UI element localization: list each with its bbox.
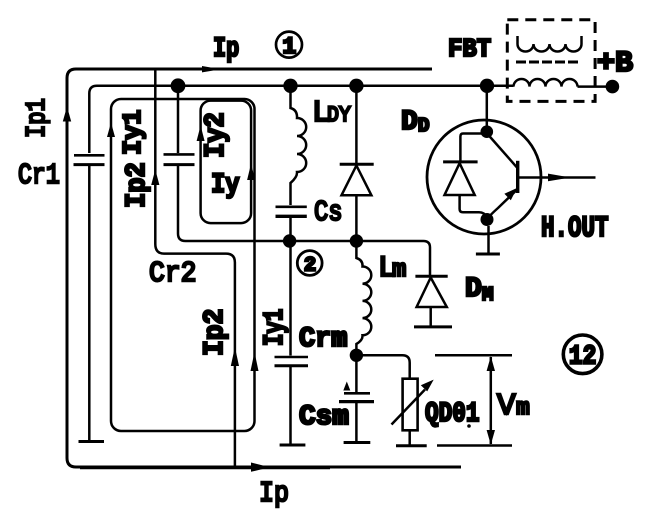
capacitor Cr2 with wire down to node 2 rail bbox=[164, 86, 289, 241]
node top junction inside DD bbox=[481, 125, 494, 138]
junction node at Lm branch bbox=[350, 234, 363, 247]
junction node on bus at LDY branch bbox=[283, 79, 297, 93]
svg-text:Iy1: Iy1 bbox=[259, 309, 291, 346]
svg-text:+B: +B bbox=[597, 47, 633, 81]
FBT core (dashed line) bbox=[516, 61, 578, 64]
arrow Ip1 on outer loop left edge bbox=[63, 107, 71, 122]
label Vm bbox=[497, 389, 530, 424]
svg-text:H.OUT: H.OUT bbox=[541, 211, 609, 245]
wire bus dot down into DD circle bbox=[486, 86, 489, 127]
arrow Ip on top wire bbox=[202, 66, 221, 72]
wire outer current loop Ip1 (top/left/bottom) bbox=[67, 69, 461, 467]
arrow Ip on bottom wire bbox=[251, 463, 270, 472]
svg-text:m: m bbox=[516, 395, 530, 421]
wire current loop Iy1 (rounded rectangle) bbox=[111, 99, 255, 431]
svg-text:Iy: Iy bbox=[211, 168, 240, 200]
svg-text:Cr1: Cr1 bbox=[18, 159, 60, 192]
capacitor Cr1 bbox=[74, 155, 105, 441]
wire bottom rail thickening bbox=[80, 467, 330, 469]
capacitor Csm (with polarity arrow) bbox=[339, 355, 374, 442]
svg-text:Ip2: Ip2 bbox=[199, 309, 231, 356]
junction node 2 at Crm branch bbox=[283, 234, 296, 247]
junction node at Lm bottom / Crm-QD01 rail bbox=[350, 349, 363, 362]
FBT secondary winding (bottom, in series with bus) bbox=[487, 79, 606, 87]
label DD bbox=[401, 107, 429, 138]
figure number 12 circled bbox=[563, 335, 602, 374]
speck (scan noise dot) bbox=[467, 424, 471, 428]
diode (damper, unlabeled) between bus and node 2 rail bbox=[340, 86, 374, 240]
svg-text:FBT: FBT bbox=[448, 34, 491, 64]
svg-text:Iy1: Iy1 bbox=[119, 110, 148, 155]
svg-text:2: 2 bbox=[304, 255, 316, 278]
arrow Iy1 on loop right edge bbox=[251, 352, 259, 371]
svg-text:Ip: Ip bbox=[213, 33, 239, 65]
svg-text:Ip1: Ip1 bbox=[22, 98, 53, 138]
ground terminal below DD bbox=[476, 226, 500, 254]
svg-text:QD01: QD01 bbox=[425, 398, 479, 430]
svg-text:Iy2: Iy2 bbox=[201, 112, 232, 158]
arrow Ip2 on lower segment bbox=[231, 347, 239, 366]
wire main bus (node 1 rail) with left bend into Cr1 bbox=[89, 86, 487, 153]
resistor QD01 (variable, with diagonal arrow) bbox=[356, 355, 433, 446]
svg-text:Cs: Cs bbox=[314, 196, 343, 229]
svg-text:12: 12 bbox=[569, 341, 597, 372]
FBT primary winding (top) bbox=[518, 36, 582, 52]
svg-text:Csm: Csm bbox=[299, 402, 349, 433]
arrow on base lead bbox=[548, 174, 571, 182]
diode inside DD bbox=[443, 134, 487, 218]
inductor LDY (deflection yoke) bbox=[291, 86, 307, 205]
svg-text:Cr2: Cr2 bbox=[149, 258, 197, 290]
capacitor Cs bbox=[276, 207, 307, 240]
arrow Iy2 on box left edge bbox=[197, 126, 205, 142]
svg-text:DY: DY bbox=[327, 104, 351, 128]
junction node on bus at damper diode branch bbox=[349, 79, 363, 93]
svg-text:V: V bbox=[497, 389, 516, 424]
node 1 circled marker bbox=[276, 32, 302, 60]
wire current path Ip2 (vertical, jog, vertical to bottom wire) bbox=[155, 69, 235, 467]
svg-text:Crm: Crm bbox=[299, 324, 347, 356]
arrow Ip2 on upper segment bbox=[151, 170, 159, 186]
wire transistor base lead out to H.OUT bbox=[518, 176, 596, 179]
terminal +B bbox=[606, 80, 620, 94]
label Lm bbox=[378, 252, 406, 286]
junction node on bus at DD / FBT bbox=[480, 79, 494, 93]
wire current loop Iy2 (rounded rectangle box) bbox=[201, 101, 252, 224]
diode DM bbox=[414, 275, 452, 327]
label LDY bbox=[312, 96, 351, 131]
junction node on bus at Cr2 branch bbox=[171, 78, 186, 93]
transformer FBT dashed box bbox=[507, 20, 595, 102]
arrow Iy1 on loop left edge bbox=[107, 123, 115, 138]
node bottom junction inside DD bbox=[481, 213, 494, 226]
node 2 circled marker bbox=[297, 251, 322, 278]
capacitor Crm bbox=[275, 241, 309, 445]
svg-text:D: D bbox=[401, 107, 418, 138]
op-amp DD outer circle (damper+transistor block) bbox=[427, 120, 541, 234]
svg-text:D: D bbox=[418, 115, 429, 137]
svg-text:Ip: Ip bbox=[259, 477, 289, 510]
svg-text:M: M bbox=[482, 284, 493, 306]
svg-text:D: D bbox=[465, 274, 482, 305]
label DM bbox=[465, 274, 493, 306]
svg-text:1: 1 bbox=[282, 34, 296, 60]
measurement bracket Vm (dimension arrows) bbox=[435, 355, 512, 445]
inductor Lm bbox=[356, 241, 371, 350]
transistor Q (H.OUT) inside DD bbox=[488, 134, 518, 219]
arrow Iy on box right edge bbox=[247, 164, 255, 181]
svg-text:Ip2: Ip2 bbox=[122, 162, 153, 208]
node 2 rail wire (from Cr2 bend to DM bend) with junction dots bbox=[288, 241, 430, 275]
svg-text:m: m bbox=[392, 257, 406, 284]
